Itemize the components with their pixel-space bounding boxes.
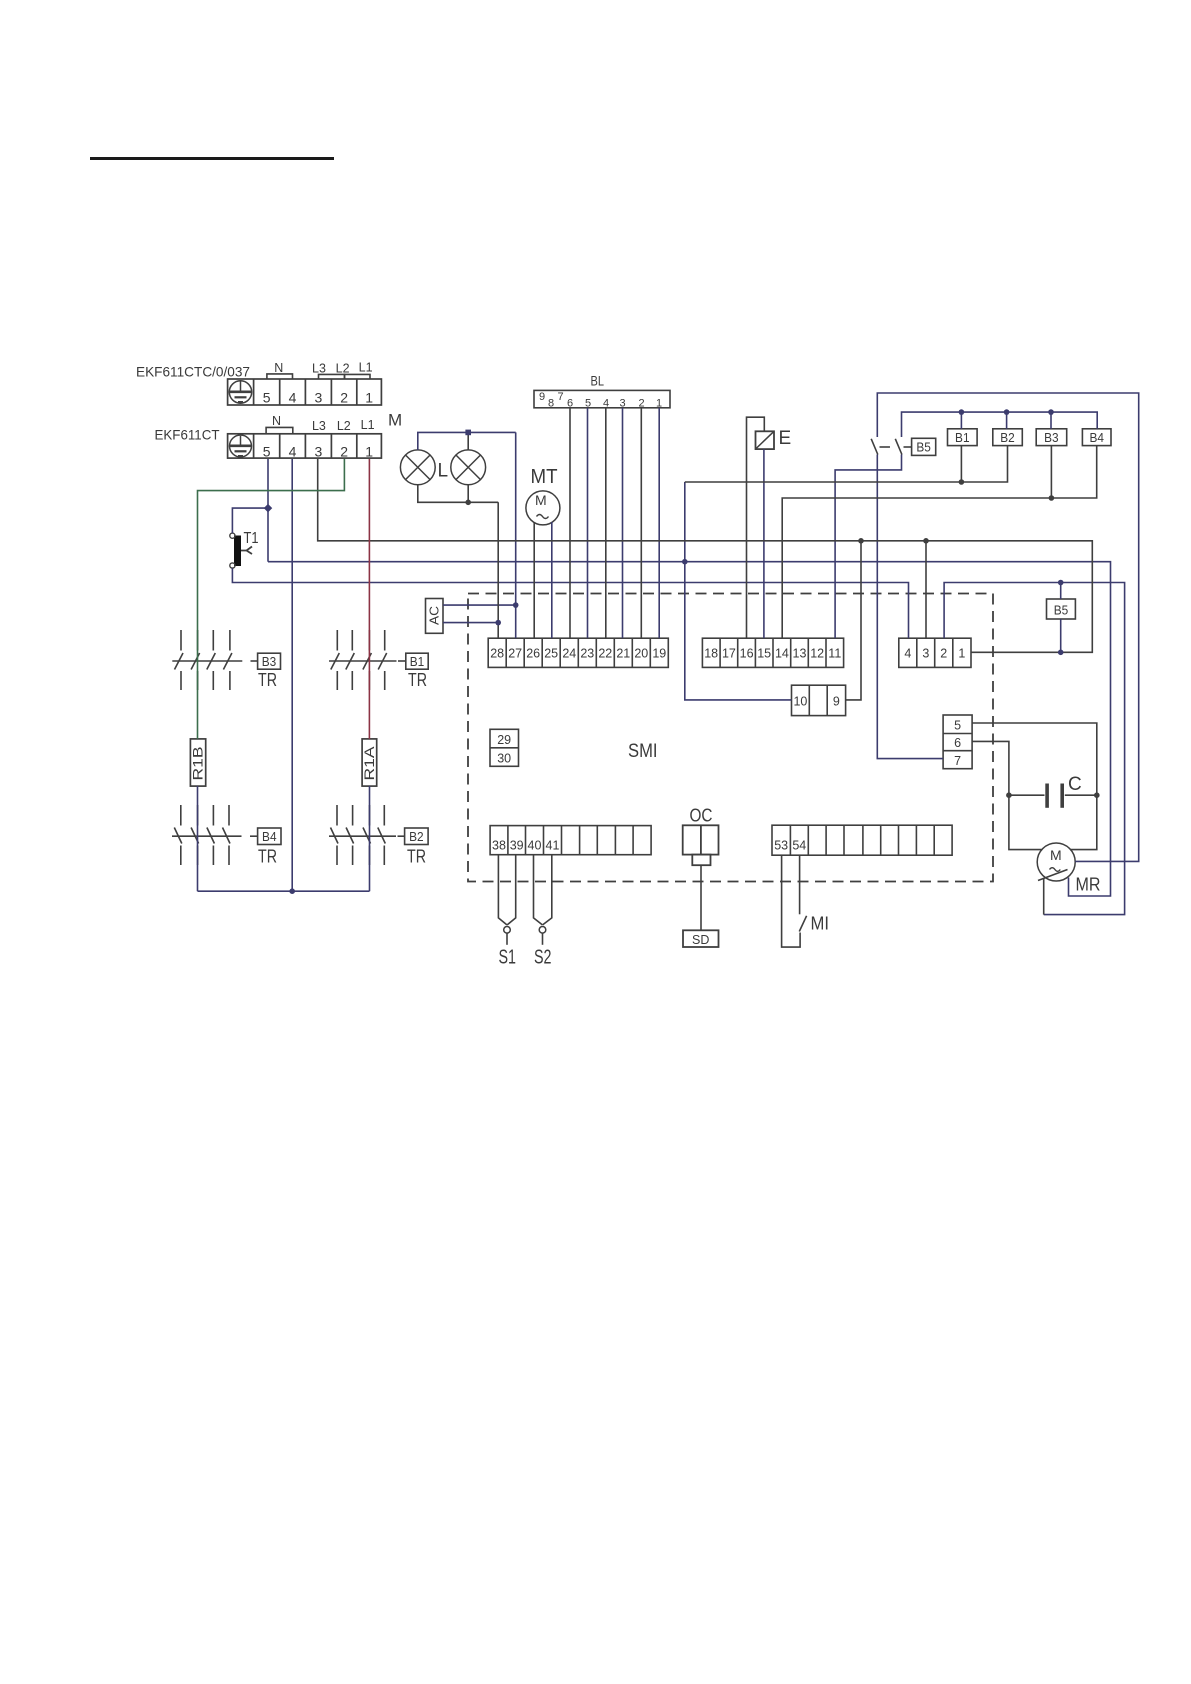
svg-text:7: 7 [954,754,961,768]
svg-text:40: 40 [528,838,542,852]
junction AC upper [513,602,519,608]
svg-text:5: 5 [263,443,271,459]
svg-text:4: 4 [603,398,609,410]
svg-text:15: 15 [757,647,771,661]
motor MR circle [1037,843,1075,881]
contact bank TR B2 (4 poles) [329,805,405,865]
svg-text:5: 5 [585,398,591,410]
X2 N bridge [266,427,293,433]
svg-text:R1B: R1B [191,747,206,781]
BL pin numbers [539,391,662,410]
wire X2 cell4 down to R bus [291,459,293,891]
svg-text:L3: L3 [312,362,326,376]
X1 L3-L2 bridge [319,374,345,379]
wire B5 lower bottom lead [1060,619,1062,652]
svg-text:41: 41 [546,838,560,852]
junction B2 rail [1004,409,1010,415]
svg-text:M: M [535,492,547,508]
svg-text:B5: B5 [916,441,931,455]
svg-text:S2: S2 [534,947,552,969]
S1 terminal circle [504,927,511,934]
svg-text:18: 18 [704,647,718,661]
wire E bottom to SMI pin 15 [763,449,765,638]
SMI connector 29/30 [490,729,519,766]
SMI connector 10/9 [792,685,846,715]
wire MT right lead to SMI pin 25 [551,522,553,638]
svg-text:13: 13 [793,647,807,661]
contact bank TR B1 (4 poles) [329,630,406,690]
svg-text:21: 21 [616,647,630,661]
wire junction riser to connector 10 [685,482,792,700]
svg-text:3: 3 [619,398,625,410]
svg-text:23: 23 [580,647,594,661]
svg-text:N: N [274,361,283,375]
wire X2 cell1 red to R1A [368,459,370,739]
wire AC lower [443,622,498,624]
svg-text:EKF611CT: EKF611CT [155,427,220,443]
svg-text:9: 9 [539,391,545,403]
svg-text:2: 2 [940,647,947,661]
svg-text:E: E [779,428,792,449]
wire MT left lead to SMI pin 26 [533,522,535,638]
junction capacitor left [1006,792,1012,798]
svg-text:B3: B3 [262,655,277,669]
wire OC to SD [700,865,702,930]
wire AC upper [443,604,516,606]
svg-text:SD: SD [692,933,709,947]
wire BL pin 5 to SMI pin 23 [587,408,589,638]
switch S1 wires from 38/39 [498,855,515,925]
svg-text:B1: B1 [955,431,970,445]
svg-text:30: 30 [497,752,511,766]
svg-text:N: N [272,414,281,428]
wire lamp2 top lead [467,432,469,450]
wire X2 cell3 to terminal 1 loop [318,459,1093,652]
ground symbol X2 [230,435,252,457]
designator box B5 (top) [912,438,936,455]
junction B3 bottom [1049,495,1055,501]
svg-text:6: 6 [954,736,961,750]
wire T1 top link [232,508,268,533]
switch MI blade [799,916,806,932]
X1 L3 L2 L1 labels [312,361,373,376]
S2 terminal circle [539,927,546,934]
svg-text:6: 6 [567,398,573,410]
junction 540 rail left [858,538,864,544]
MR centrifugal switch slash [1038,870,1068,881]
svg-text:BL: BL [591,374,605,389]
junction lamp rail bottom [465,500,471,506]
svg-text:4: 4 [289,389,297,405]
switch B5 contact 1 [871,439,890,455]
contact bank TR B4 (4 poles) [172,805,258,865]
designator box B1 [948,429,978,446]
svg-text:1: 1 [365,443,373,459]
T1 top terminal circle [230,533,235,538]
X2 L3 L2 L1 labels [312,418,375,433]
capacitor C plates [1009,784,1097,808]
svg-text:B4: B4 [1089,431,1104,445]
svg-text:AC: AC [427,606,442,625]
designator box B2 [993,429,1023,446]
svg-text:8: 8 [548,398,554,410]
svg-text:4: 4 [904,647,911,661]
svg-text:10: 10 [793,694,807,708]
wire 54 down [799,855,801,915]
svg-text:T1: T1 [244,530,259,547]
wire X2 cell2 green to R1B [198,459,345,739]
junction B5 lower bottom [1058,650,1064,656]
designator box B2 (bank) [405,828,429,845]
resistor R1B [190,739,205,786]
wire SMI pin 2 to MR bottom rail [944,583,1125,915]
svg-text:M: M [388,411,402,430]
igniter E square [756,431,775,449]
ground symbol X1 [229,381,251,403]
svg-text:EKF611CTC/0/037: EKF611CTC/0/037 [136,364,250,380]
svg-text:5: 5 [263,389,271,405]
wire contact2 bottom to SMI pin 11 [835,455,901,639]
wire SMI cell 6 to capacitor left [972,741,1009,795]
junction T1 tap (diamond) [264,504,272,512]
svg-text:1: 1 [958,647,965,661]
switch B5 contact 2 [895,439,911,455]
junction AC lower [495,620,501,626]
designator box B3 (bank) [258,653,281,669]
motor MT [526,491,560,525]
X1 N bridge [267,374,293,379]
lamp L2 [451,450,486,485]
wire bottom N bus [198,890,370,892]
svg-text:1: 1 [365,389,373,405]
svg-text:SMI: SMI [628,741,658,762]
contact bank TR B3 (4 poles) [172,630,257,690]
resistor R1A [362,739,377,786]
wire B1 top lead [960,412,962,429]
designator box B3 [1036,429,1067,446]
SMI bottom-right strip 53-54 [772,825,952,855]
switch S2 wires from 40/41 [534,855,552,925]
junction B1 rail [959,409,965,415]
svg-text:19: 19 [652,647,666,661]
svg-text:OC: OC [690,806,713,826]
terminal block X1 outline [228,379,382,405]
svg-text:B4: B4 [262,830,277,844]
terminal block X2 outline [228,434,382,458]
wire B1/B2 bottom rail [685,446,1008,482]
svg-text:S1: S1 [499,947,517,969]
svg-text:11: 11 [828,647,841,661]
svg-text:R1A: R1A [362,747,377,781]
svg-text:25: 25 [544,647,558,661]
svg-text:20: 20 [634,647,648,661]
X2 cell numbers [263,443,374,459]
svg-text:MI: MI [811,914,830,934]
thermostat T1 bar [234,536,241,567]
wire B3/B4 bottom rail to SMI pin 14 [782,446,1096,639]
svg-text:5: 5 [954,719,961,733]
svg-text:MR: MR [1076,875,1101,895]
svg-text:B5: B5 [1054,603,1069,617]
svg-text:9: 9 [833,694,840,708]
wire MR bottom-left lead [1043,879,1045,915]
svg-text:2: 2 [638,398,644,410]
svg-text:24: 24 [562,647,576,661]
svg-text:B2: B2 [1000,431,1015,445]
svg-text:C: C [1068,774,1082,795]
junction B3 rail [1048,409,1054,415]
wire lamp rail to SMI pin 27 [515,432,517,638]
svg-text:TR: TR [258,669,277,690]
wire switch contact2 top to B1-B4 rail [902,412,1098,437]
heading underline [90,157,334,160]
svg-text:3: 3 [315,443,323,459]
junction B1 bottom [959,479,965,485]
svg-text:L3: L3 [312,419,326,433]
svg-text:L2: L2 [336,362,350,376]
svg-text:22: 22 [598,647,612,661]
svg-text:L1: L1 [361,418,375,432]
wire junction to SMI pin 3 [925,541,927,638]
junction capacitor right [1094,792,1100,798]
svg-text:17: 17 [722,647,736,661]
designator box B1 (bank) [406,653,428,669]
wire lamp rail to SMI pin 28 [497,502,499,638]
svg-text:14: 14 [775,647,789,661]
SMI dashed enclosure [468,594,993,882]
junction B5 lower top [1058,580,1064,586]
wire BL pin 6 to SMI pin 24 [569,408,571,638]
designator box B4 [1082,429,1111,446]
X1 L2-L1 bridge [345,374,371,379]
junction bus 562 riser [682,559,688,565]
S1 stub [506,933,508,945]
svg-text:TR: TR [407,846,426,867]
wire BL pin 3 to SMI pin 21 [622,408,624,638]
svg-text:MT: MT [531,466,558,488]
SMI bottom-left strip 38-41 [490,826,651,855]
svg-text:2: 2 [340,443,348,459]
svg-text:4: 4 [289,443,297,459]
SMI terminal strip 4-3-2-1 [899,638,971,667]
wire BL pin 4 to SMI pin 22 [605,408,607,638]
wire N bus y562 [268,562,1111,896]
svg-text:TR: TR [258,846,277,867]
lamp L1 [400,450,435,485]
svg-text:L: L [438,461,449,482]
wire X2 cell5 to bus [267,459,269,562]
svg-text:7: 7 [557,391,563,403]
svg-text:B3: B3 [1044,431,1059,445]
svg-text:38: 38 [492,838,506,852]
junction 540 rail right [923,538,929,544]
svg-text:54: 54 [792,838,806,852]
junction bottom N bus [289,888,295,894]
junction lamp rail top [465,430,471,436]
wire R1B bottom lead [197,786,199,891]
wire B5 lower top lead [1060,583,1062,600]
connector AC box [426,599,444,634]
wire SMI cell 5 to capacitor right [972,723,1097,795]
svg-text:L1: L1 [359,361,373,375]
wire lamp bottom rail [418,485,498,503]
svg-text:1: 1 [656,398,662,410]
svg-text:B1: B1 [410,655,425,669]
wire lamp2 bottom lead [467,485,469,503]
wire connector 9 to bus riser [846,541,861,700]
wire B2 top lead [1006,412,1008,429]
wire N bus top (switch to MR right riser) [877,393,1138,861]
svg-text:39: 39 [510,838,524,852]
wire B3 top lead [1050,412,1052,429]
svg-text:27: 27 [508,647,522,661]
wire E feed riser to SMI pin 16 [747,417,765,638]
svg-text:29: 29 [497,733,511,747]
wire contact1 bottom to SMI pin 7 [877,455,943,759]
svg-text:28: 28 [490,647,504,661]
designator box B4 (bank) [258,828,281,845]
wire T1 bottom to SMI pin 4 [232,568,908,638]
wire B3 bottom lead [1050,446,1052,498]
svg-text:B2: B2 [409,830,424,844]
svg-text:3: 3 [315,389,323,405]
wire capacitor left to MR left [1009,795,1042,849]
T1 fork contact [241,547,252,555]
SMI terminal strip 28-19 [488,638,668,667]
wire BL pin 2 to SMI pin 20 [640,408,642,638]
T1 bottom terminal circle [230,563,235,568]
svg-text:2: 2 [340,389,348,405]
SMI terminal strip 18-11 [702,638,843,667]
svg-text:16: 16 [740,647,754,661]
svg-text:M: M [1050,847,1062,863]
X1 cell numbers [263,389,374,405]
svg-text:26: 26 [526,647,540,661]
S2 stub [542,933,544,945]
wire BL pin 1 to SMI pin 19 [658,408,660,638]
SMI connector 5/6/7 [943,715,972,769]
box SD [683,930,719,947]
svg-text:12: 12 [810,647,824,661]
wire lamp rail top [418,432,516,450]
wire capacitor right to MR right [1071,795,1097,849]
designator box B5 (lower) [1047,599,1076,619]
connector BL box [534,390,670,407]
svg-text:3: 3 [922,647,929,661]
svg-text:L2: L2 [337,419,351,433]
svg-text:53: 53 [774,838,788,852]
svg-text:TR: TR [408,669,427,690]
wire R1A bottom lead [369,786,371,891]
wire 53 down [782,855,801,947]
connector OC [683,825,719,865]
wire B1 bottom lead [960,446,962,482]
